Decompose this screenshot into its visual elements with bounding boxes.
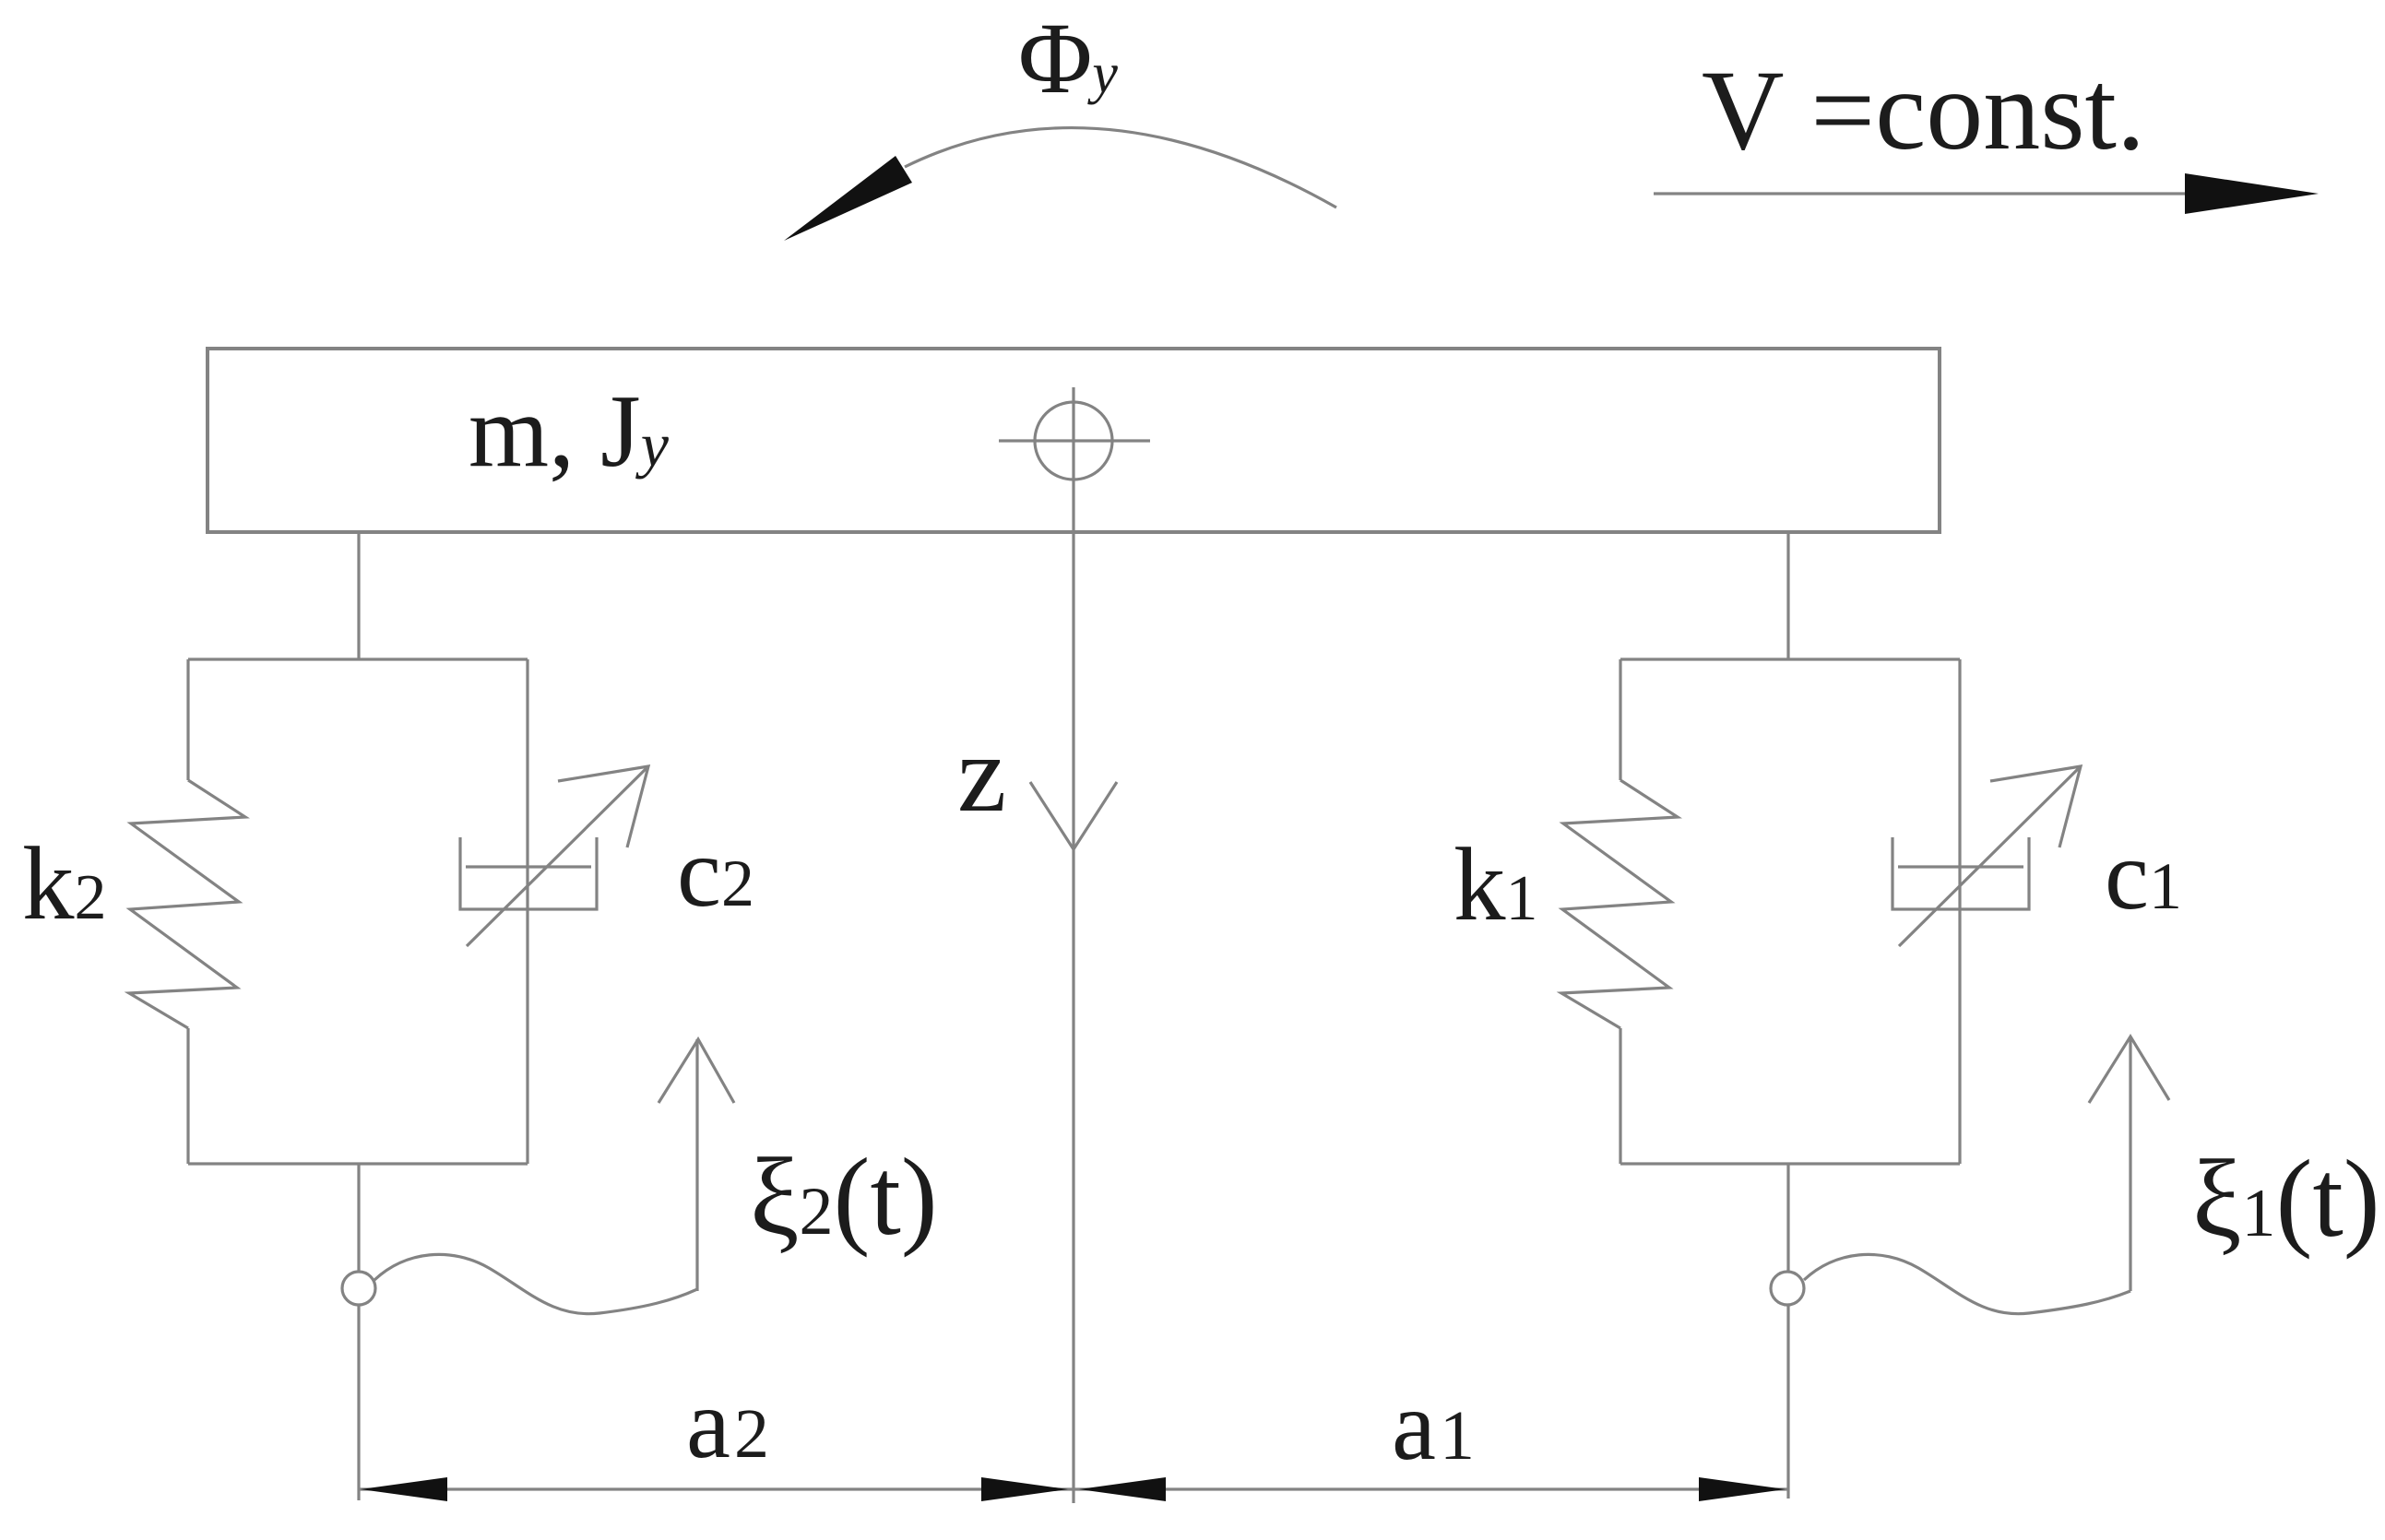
svg-text:a1: a1	[1392, 1371, 1475, 1481]
spring k2	[129, 780, 245, 1028]
svg-text:m, Jy: m, Jy	[469, 374, 670, 489]
dim arrow left end	[361, 1477, 447, 1501]
right suspension connecting wire	[1786, 532, 1789, 659]
right road contact circle	[1771, 1272, 1804, 1305]
svg-text:k2: k2	[22, 826, 107, 942]
svg-text:Φy: Φy	[1018, 2, 1118, 114]
svg-text:c1: c1	[2105, 821, 2182, 930]
svg-text:ξ1(t): ξ1(t)	[2192, 1137, 2380, 1260]
svg-text:c2: c2	[677, 818, 754, 928]
z axis centerline	[1072, 495, 1074, 1503]
right suspension frame	[1620, 659, 1960, 1164]
road input arrow xi2	[659, 1039, 734, 1291]
right road profile wave	[1804, 1254, 2130, 1313]
velocity arrow line	[1654, 192, 2250, 195]
spring k1	[1561, 780, 1678, 1028]
svg-text:k1: k1	[1454, 827, 1538, 942]
left road contact circle	[342, 1272, 375, 1305]
left road profile wave	[374, 1254, 697, 1313]
velocity arrowhead	[2185, 173, 2319, 214]
dimension line a2/a1	[359, 1487, 1788, 1490]
right road wire	[1786, 1164, 1789, 1499]
sprung mass bar m,Jy	[208, 349, 1940, 532]
svg-text:ξ2(t): ξ2(t)	[750, 1135, 938, 1258]
damper c1 piston	[1898, 865, 2023, 868]
pitch arc arrowhead	[784, 156, 912, 241]
left suspension frame	[188, 659, 528, 1164]
damper c1 cup	[1893, 837, 2029, 909]
left suspension connecting wire	[357, 532, 360, 659]
dim arrow right end	[1699, 1477, 1786, 1501]
z axis arrowhead	[1030, 782, 1117, 849]
damper c2 cup	[460, 837, 597, 909]
road input arrow xi1	[2089, 1037, 2169, 1291]
pitch arc	[905, 128, 1336, 207]
damper c2 adjust arrow	[467, 766, 648, 946]
center of gravity symbol	[999, 387, 1150, 495]
damper c2 piston	[466, 865, 591, 868]
svg-text:z: z	[957, 712, 1006, 835]
left road wire	[357, 1164, 360, 1500]
dim arrow center-left	[981, 1477, 1068, 1501]
svg-text:a2: a2	[686, 1369, 769, 1479]
dim arrow center-right	[1079, 1477, 1166, 1501]
damper c1 adjust arrow	[1899, 766, 2081, 946]
svg-text:V =const.: V =const.	[1702, 47, 2145, 173]
